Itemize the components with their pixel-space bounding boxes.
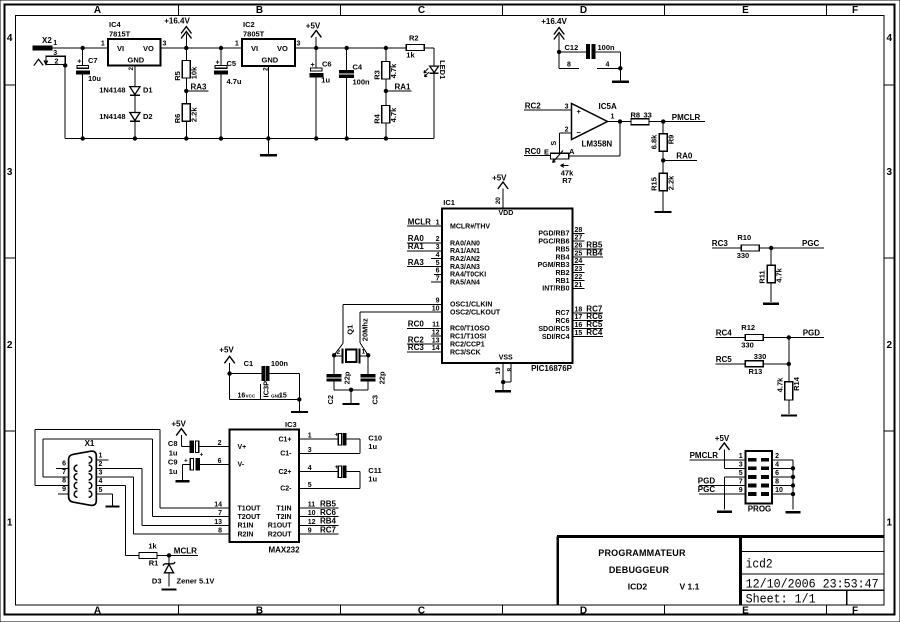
supply +16.4V arrow left [164, 17, 191, 49]
net label MCLR pin1 [407, 218, 442, 227]
connector PROG box [746, 451, 773, 513]
ground below R11 [763, 303, 779, 305]
svg-text:5: 5 [739, 470, 743, 477]
svg-text:IC5A: IC5A [599, 102, 617, 111]
svg-text:PGC: PGC [802, 239, 820, 248]
node D2 bottom rail junction [133, 136, 137, 140]
svg-text:2.2k: 2.2k [666, 175, 675, 190]
svg-text:C2+: C2+ [278, 469, 291, 476]
svg-text:RC6: RC6 [320, 508, 337, 517]
IC1 pin4 stub [431, 258, 442, 260]
net label RC2 [524, 101, 572, 110]
svg-text:22p: 22p [377, 371, 386, 384]
wire T1OUT net X1 pin8 to IC3 [35, 430, 230, 508]
X1 contacts left [74, 465, 77, 497]
svg-text:7: 7 [218, 510, 222, 517]
LED LED1 [424, 60, 447, 79]
svg-text:E: E [544, 148, 549, 157]
capacitor C9 1u [168, 458, 230, 477]
wire T2OUT net X1 pin7 to IC3 [43, 439, 230, 517]
svg-text:1u: 1u [368, 474, 377, 483]
svg-text:25: 25 [575, 250, 583, 257]
svg-text:PMCLR: PMCLR [690, 451, 719, 460]
svg-text:17: 17 [575, 314, 583, 321]
svg-text:+: + [335, 432, 339, 439]
wire +5V to PROG pin3 [724, 467, 745, 469]
ground below R14 [781, 414, 797, 416]
svg-text:27: 27 [575, 235, 583, 242]
svg-text:RC2: RC2 [525, 101, 542, 110]
wire IC4 out to IC2 in [161, 47, 242, 49]
PROG contacts [749, 458, 769, 495]
svg-text:PIC16876P: PIC16876P [531, 364, 573, 373]
svg-text:4.7u: 4.7u [227, 77, 242, 86]
frame column labels bottom [94, 606, 858, 617]
svg-text:3: 3 [436, 244, 440, 251]
X1 pin1 stub [96, 459, 108, 461]
IC1 right stubs pins 28 27 24 23 22 21 [572, 233, 584, 288]
wire IC2 GND to ground [267, 66, 269, 139]
svg-text:R2OUT: R2OUT [268, 531, 292, 538]
svg-text:2: 2 [55, 58, 59, 65]
node R6 bottom rail junction [184, 136, 188, 140]
wire X2 pin2 down to bottom rail [63, 63, 67, 138]
capacitor C1 100n [230, 359, 300, 381]
svg-text:4: 4 [99, 478, 103, 485]
svg-text:PROG: PROG [748, 505, 772, 514]
svg-text:+5V: +5V [219, 345, 234, 354]
svg-text:22p: 22p [343, 371, 352, 384]
svg-text:3: 3 [297, 41, 301, 48]
svg-text:INT/RB0: INT/RB0 [542, 286, 569, 293]
capacitor C4 100n [340, 46, 370, 139]
svg-text:RC2/CCP1: RC2/CCP1 [450, 341, 485, 348]
svg-text:C: C [418, 606, 425, 617]
node PMCLR junction [661, 119, 665, 123]
svg-text:RB4: RB4 [586, 248, 603, 257]
wire OSC1 to crystal [334, 304, 442, 355]
svg-text:12/10/2006 23:53:47: 12/10/2006 23:53:47 [746, 576, 879, 591]
svg-text:8: 8 [567, 61, 571, 68]
svg-text:A: A [569, 147, 575, 156]
svg-text:C4: C4 [353, 63, 363, 72]
svg-text:5: 5 [436, 260, 440, 267]
svg-text:7: 7 [739, 479, 743, 486]
ground below crystal [343, 390, 360, 404]
IC1 pin6 stub [434, 273, 442, 275]
capacitor C8 1u [168, 439, 230, 459]
node R4 bottom rail junction [384, 136, 388, 140]
svg-text:9: 9 [739, 487, 743, 494]
svg-text:RC6: RC6 [555, 318, 569, 325]
ground below PROG right [786, 511, 801, 513]
svg-text:R1IN: R1IN [238, 523, 254, 530]
svg-text:1: 1 [308, 433, 312, 440]
svg-text:R8: R8 [631, 110, 641, 119]
svg-text:7805T: 7805T [243, 30, 265, 39]
svg-text:RB4: RB4 [555, 254, 569, 261]
net label RA0 pin2 [407, 234, 442, 243]
svg-text:1u: 1u [169, 449, 178, 458]
svg-text:R3: R3 [372, 70, 381, 80]
svg-text:4.7k: 4.7k [775, 377, 784, 392]
svg-text:10k: 10k [189, 66, 198, 79]
svg-text:icd2: icd2 [746, 557, 773, 572]
node PROG pin4 junction [791, 466, 795, 470]
svg-text:D: D [580, 606, 587, 617]
svg-text:3: 3 [565, 104, 569, 111]
wire crystal caps to ground [334, 389, 368, 391]
diode D2 1N4148 [99, 112, 152, 121]
svg-text:D1: D1 [143, 86, 153, 95]
svg-text:VI: VI [117, 44, 124, 53]
svg-text:33: 33 [644, 110, 652, 119]
svg-text:4: 4 [7, 33, 13, 44]
svg-text:1u: 1u [368, 442, 377, 451]
connector X1 DB9 [69, 439, 97, 505]
svg-text:2: 2 [887, 340, 893, 351]
svg-text:C2: C2 [326, 395, 335, 405]
svg-text:RC0: RC0 [408, 320, 425, 329]
svg-text:C5: C5 [227, 59, 237, 68]
svg-text:T2OUT: T2OUT [238, 514, 262, 521]
svg-text:V 1.1: V 1.1 [680, 582, 700, 592]
node crystal pin1 junction [366, 353, 370, 357]
svg-text:2: 2 [218, 440, 222, 447]
svg-text:B: B [256, 606, 263, 617]
svg-text:R11: R11 [758, 270, 767, 283]
svg-text:VO: VO [143, 44, 154, 53]
svg-text:C7: C7 [88, 56, 98, 65]
IC1 pin7 stub [431, 281, 442, 283]
svg-text:F: F [852, 5, 858, 16]
op-amp IC5A LM358N [565, 102, 617, 149]
node PROG pin10 junction [791, 492, 795, 496]
svg-text:C: C [418, 5, 425, 16]
svg-text:3: 3 [887, 167, 893, 178]
capacitor C3 22p [361, 355, 386, 404]
node C4 bottom rail junction [345, 136, 349, 140]
wire X2 pin1 to IC4 [52, 47, 108, 49]
net label RB5 pin26 [572, 241, 603, 250]
svg-text:8: 8 [218, 527, 222, 534]
wire X1 pin5 to ground [96, 494, 112, 506]
svg-text:6.8k: 6.8k [650, 134, 659, 149]
ground below X1 pin5 [105, 505, 119, 507]
frame row ticks right [884, 84, 895, 86]
svg-text:11: 11 [432, 322, 440, 329]
resistor R4 4.7k [372, 91, 398, 139]
resistor R2 1k [406, 34, 424, 60]
svg-text:26: 26 [575, 243, 583, 250]
IC3 internal pin names [238, 437, 293, 539]
title block outline [557, 537, 884, 605]
svg-text:18: 18 [575, 306, 583, 313]
resistor R5 10k [173, 48, 199, 91]
svg-text:3: 3 [739, 461, 743, 468]
resistor R3 4.7k [372, 46, 398, 91]
wire D1 to D2 [134, 95, 136, 112]
driver IC3 MAX232 box [230, 420, 300, 555]
svg-text:C1+: C1+ [278, 437, 291, 444]
svg-text:330: 330 [754, 352, 767, 361]
svg-text:6: 6 [62, 460, 66, 467]
svg-text:R13: R13 [749, 367, 763, 376]
wire C1 right down to pin line [298, 374, 300, 400]
svg-text:A: A [94, 5, 101, 16]
svg-text:19: 19 [495, 367, 502, 375]
svg-text:R1: R1 [149, 559, 159, 568]
svg-text:8: 8 [775, 479, 779, 486]
wire X1 pin4 to R1 [96, 486, 139, 556]
capacitor C6 1u [310, 48, 332, 139]
svg-text:D2: D2 [143, 112, 153, 121]
node VSS junction [501, 380, 505, 384]
svg-text:2: 2 [128, 67, 135, 71]
svg-text:3: 3 [7, 167, 13, 178]
svg-text:PGD: PGD [803, 329, 821, 338]
svg-text:SDI/RC4: SDI/RC4 [542, 334, 570, 341]
svg-text:9: 9 [436, 298, 440, 305]
capacitor C2 22p [326, 355, 352, 404]
svg-text:20: 20 [495, 197, 502, 205]
svg-text:+5V: +5V [306, 22, 321, 31]
svg-text:R4: R4 [372, 113, 381, 123]
net label RC6 T2IN [299, 508, 338, 517]
capacitor C5 4.7u [215, 46, 242, 139]
svg-text:100n: 100n [271, 359, 289, 368]
node MCLR junction [167, 553, 171, 557]
svg-text:C9: C9 [168, 458, 178, 467]
net label RC4 pin15 [572, 328, 603, 337]
resistor R11 4.7k [758, 248, 784, 302]
svg-text:4.7k: 4.7k [389, 63, 398, 78]
wire IC5A output [608, 121, 632, 123]
svg-text:8: 8 [62, 478, 66, 485]
PROG pin numbers [739, 453, 783, 494]
svg-text:IC1: IC1 [443, 198, 455, 207]
IC1 pin numbers left [432, 220, 440, 353]
svg-text:MCLR#/THV: MCLR#/THV [450, 224, 490, 231]
svg-text:22: 22 [575, 274, 583, 281]
capacitor C12 100n [559, 43, 620, 59]
net label RC7 pin18 [572, 304, 603, 313]
resistor R12 330 [741, 323, 763, 349]
node C7 bottom rail junction [81, 136, 85, 140]
capacitor C7 [76, 48, 101, 139]
svg-text:11: 11 [308, 501, 316, 508]
svg-text:R7: R7 [562, 176, 572, 185]
wire R2IN net X1 pin3 to IC3 [96, 477, 229, 534]
frame row labels left [7, 33, 13, 529]
resistor R1 1k [139, 542, 158, 568]
svg-text:T1IN: T1IN [276, 505, 291, 512]
node crystal pin2 junction [332, 353, 336, 357]
svg-text:1: 1 [7, 518, 13, 529]
supply +5V arrow top [306, 22, 322, 48]
svg-text:4: 4 [887, 33, 893, 44]
ground below C9 [176, 464, 190, 481]
svg-text:9: 9 [308, 527, 312, 534]
svg-text:F: F [852, 606, 858, 617]
svg-text:R9: R9 [666, 135, 675, 145]
svg-text:C6: C6 [322, 60, 332, 69]
svg-text:+5V: +5V [171, 420, 186, 429]
ground below IC2 [260, 139, 277, 156]
svg-text:13: 13 [214, 519, 222, 526]
wire IC2 out to R2 [295, 47, 406, 49]
wire OSC2 to crystal [360, 312, 442, 355]
wire R2 to LED1 [424, 48, 434, 66]
svg-text:ICD2: ICD2 [628, 582, 648, 592]
svg-text:VDD: VDD [499, 210, 514, 217]
svg-text:20Mhz: 20Mhz [360, 318, 369, 341]
svg-text:15: 15 [575, 330, 583, 337]
svg-text:4.7k: 4.7k [774, 267, 783, 282]
svg-text:12: 12 [432, 329, 440, 336]
svg-text:PGM/RB3: PGM/RB3 [538, 262, 570, 269]
svg-text:T2IN: T2IN [276, 514, 291, 521]
svg-text:14: 14 [432, 345, 440, 352]
svg-text:100n: 100n [598, 43, 616, 52]
net label RC5 R13 [716, 355, 746, 364]
svg-text:16: 16 [575, 322, 583, 329]
svg-text:C3: C3 [370, 395, 379, 405]
svg-text:7: 7 [62, 469, 66, 476]
crystal Q1 20Mhz [334, 318, 369, 363]
svg-text:X1: X1 [85, 439, 95, 448]
svg-text:RC3: RC3 [408, 343, 425, 352]
svg-text:2: 2 [775, 453, 779, 460]
svg-text:23: 23 [575, 266, 583, 273]
svg-text:MAX232: MAX232 [268, 546, 300, 555]
svg-text:VI: VI [251, 44, 258, 53]
IC3 pin numbers [214, 433, 315, 535]
svg-text:8: 8 [506, 368, 513, 372]
frame column ticks bottom [178, 605, 180, 615]
svg-text:14: 14 [214, 501, 222, 508]
svg-text:RC0/T1OSO: RC0/T1OSO [450, 326, 490, 333]
svg-text:10: 10 [308, 510, 316, 517]
supply +5V arrow C8 [171, 420, 190, 447]
node RA0 [661, 152, 697, 163]
resistor R9 6.8k [650, 122, 676, 161]
svg-text:LM358N: LM358N [582, 140, 613, 149]
svg-text:+: + [184, 458, 188, 465]
svg-text:+: + [335, 464, 339, 471]
svg-text:E: E [742, 606, 749, 617]
svg-text:LED1: LED1 [438, 60, 447, 79]
svg-text:R6: R6 [173, 114, 182, 124]
resistor R13 330 [745, 352, 766, 376]
svg-text:C12: C12 [565, 43, 579, 52]
svg-text:RA3: RA3 [408, 258, 425, 267]
wire D2 to bottom rail [134, 121, 136, 138]
svg-text:RB5: RB5 [555, 246, 569, 253]
svg-text:RC4: RC4 [586, 328, 603, 337]
frame row ticks left [5, 84, 16, 86]
svg-text:RC4: RC4 [716, 329, 733, 338]
svg-text:1N4148: 1N4148 [99, 86, 125, 95]
svg-text:IC4: IC4 [109, 20, 122, 29]
svg-text:IC3: IC3 [285, 420, 297, 429]
IC1 internal pin names right [538, 231, 570, 341]
svg-text:V-: V- [238, 462, 245, 469]
svg-text:+: + [311, 62, 315, 69]
svg-text:5: 5 [99, 487, 103, 494]
wire PROG even pins to ground rail [772, 460, 793, 510]
svg-text:6: 6 [775, 470, 779, 477]
frame column ticks top [178, 5, 180, 16]
svg-text:R2IN: R2IN [238, 531, 254, 538]
svg-text:GND: GND [128, 55, 145, 64]
svg-text:RA2/AN2: RA2/AN2 [450, 256, 480, 263]
wire PROG pin5 to ground [724, 477, 745, 510]
voltage regulator IC4 7815T [101, 20, 167, 71]
node C12 right junction [618, 66, 622, 70]
zener diode D3 5.1V [152, 555, 215, 586]
svg-text:13: 13 [432, 337, 440, 344]
svg-text:C1: C1 [244, 359, 254, 368]
net label RC2 pin13 [407, 335, 442, 344]
svg-text:4: 4 [308, 465, 312, 472]
microcontroller IC1 PIC16876P box [442, 198, 573, 373]
svg-text:1u: 1u [321, 76, 330, 85]
svg-text:1u: 1u [169, 467, 178, 476]
svg-text:+5V: +5V [492, 173, 507, 182]
svg-text:PROGRAMMATEUR: PROGRAMMATEUR [598, 548, 686, 558]
svg-text:1k: 1k [148, 542, 157, 551]
svg-text:V+: V+ [238, 444, 247, 451]
svg-text:1: 1 [53, 40, 57, 47]
ground below PROG left [717, 511, 732, 513]
svg-text:R15: R15 [650, 177, 659, 191]
svg-text:100n: 100n [353, 78, 371, 87]
svg-text:E: E [742, 5, 749, 16]
node C6 bottom rail junction [314, 136, 318, 140]
svg-text:R1OUT: R1OUT [268, 523, 292, 530]
svg-text:RB1: RB1 [555, 278, 569, 285]
svg-text:15: 15 [279, 392, 287, 399]
svg-text:4.7k: 4.7k [389, 107, 398, 122]
supply +5V arrow PROG [715, 434, 730, 469]
svg-text:+: + [577, 107, 582, 116]
svg-text:2: 2 [436, 236, 440, 243]
wire R12 to PGD [763, 337, 824, 339]
svg-text:VO: VO [277, 44, 288, 53]
node PROG pin6 junction [791, 475, 795, 479]
supply +16.4V arrow middle [541, 17, 567, 68]
svg-text:C2-: C2- [280, 486, 292, 493]
svg-text:RA1: RA1 [395, 82, 412, 91]
svg-text:RB2: RB2 [555, 270, 569, 277]
svg-text:RA0/AN0: RA0/AN0 [450, 240, 480, 247]
net label RC5 pin16 [572, 320, 603, 329]
resistor R14 4.7k [775, 338, 801, 415]
svg-text:RC3: RC3 [712, 239, 729, 248]
net label RC7 R2OUT [299, 525, 338, 534]
node C12 left junction [557, 50, 561, 54]
svg-text:1: 1 [101, 40, 105, 47]
svg-text:RC7: RC7 [555, 310, 569, 317]
svg-text:16: 16 [238, 393, 246, 400]
svg-text:VCC: VCC [246, 394, 256, 399]
resistor R10 330 [737, 233, 760, 260]
wire feedback output to pot [569, 122, 620, 157]
net label RC6 pin17 [572, 312, 603, 321]
svg-text:3: 3 [163, 40, 167, 47]
svg-text:330: 330 [741, 340, 754, 349]
